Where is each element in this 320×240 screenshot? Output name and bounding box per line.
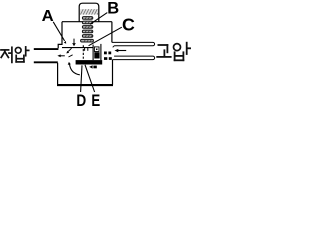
svg-text:B: B xyxy=(107,0,119,17)
svg-text:D: D xyxy=(76,91,86,109)
svg-text:A: A xyxy=(42,7,54,24)
svg-text:C: C xyxy=(122,15,135,35)
svg-text:E: E xyxy=(91,91,100,109)
